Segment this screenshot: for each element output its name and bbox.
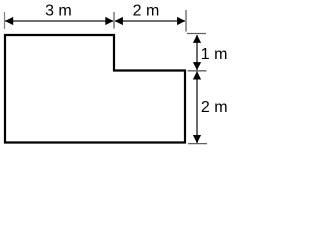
right dim tick bottom horizontal (y=143.6): [188, 143, 207, 145]
3m left arrowhead: [5, 17, 13, 25]
dim tick left vertical (x=4.5): [4, 12, 6, 29]
2m right dimension shaft: [196, 72, 198, 144]
dim tick middle vertical (x=114): [113, 12, 115, 29]
2m right arrowhead: [177, 17, 185, 25]
1m down arrowhead: [193, 62, 201, 70]
svg-text:2 m: 2 m: [133, 3, 160, 20]
1m up arrowhead: [193, 35, 201, 43]
L-shaped figure outline: [5, 35, 185, 143]
svg-text:3 m: 3 m: [45, 3, 72, 20]
3m dimension shaft: [5, 20, 113, 22]
svg-text:2 m: 2 m: [201, 99, 228, 116]
svg-text:1 m: 1 m: [201, 46, 228, 63]
3m right arrowhead: [105, 17, 113, 25]
dim tick right vertical (x=186): [185, 10, 187, 32]
2m dimension shaft: [115, 20, 185, 22]
2m left arrowhead: [115, 17, 123, 25]
right dim tick middle horizontal (y=70.8): [188, 70, 207, 72]
1m dimension shaft: [196, 35, 198, 70]
right dim tick top horizontal (y=33.5): [187, 33, 206, 35]
2m right down arrowhead: [193, 135, 201, 143]
2m right up arrowhead: [193, 71, 201, 79]
